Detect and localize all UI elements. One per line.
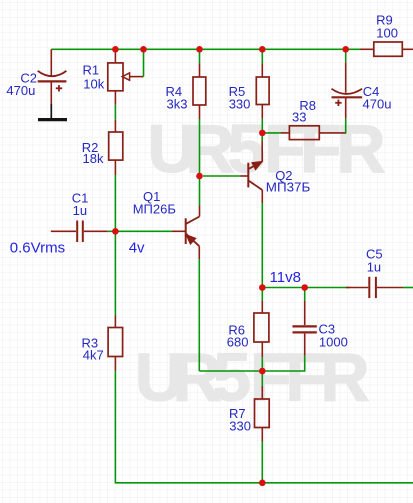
svg-text:3k3: 3k3 (167, 97, 188, 112)
capacitor C4 (332, 62, 363, 118)
wire R3 to bottom rail (115, 371, 413, 483)
label Q2 МП37Б (266, 168, 311, 195)
wire R7 to bottom rail (261, 441, 263, 482)
svg-text:1u: 1u (73, 203, 87, 218)
wire node to R6 (261, 288, 263, 302)
label R9 100 (376, 13, 398, 41)
node R6 R7 mid (259, 368, 266, 375)
wire R1 to R2 (114, 105, 116, 120)
resistor R4 (193, 63, 206, 119)
capacitor C1 (51, 221, 108, 243)
label R4 3k3 (166, 84, 188, 111)
wire node to C3 (304, 288, 306, 302)
resistor R2 (109, 120, 123, 175)
svg-text:1000: 1000 (319, 335, 348, 350)
svg-text:4v: 4v (129, 239, 145, 256)
node rail R5 (259, 46, 266, 53)
svg-text:11v8: 11v8 (270, 269, 301, 286)
R1 wiper arrow (122, 73, 143, 80)
node rail C4 (342, 46, 349, 53)
resistor R3 (108, 316, 123, 371)
label C3 1000 (319, 322, 348, 350)
transistor Q2 (241, 141, 263, 203)
wire rail to R5 (261, 49, 263, 63)
wire node to R8 (262, 132, 281, 134)
wire Q2 emitter to node (261, 130, 263, 141)
wire Q2 collector down (261, 203, 263, 288)
resistor R5 (256, 63, 269, 118)
svg-text:330: 330 (229, 418, 251, 433)
watermark row 2 (135, 339, 370, 415)
potentiometer R1 (108, 49, 123, 104)
svg-text:5: 5 (213, 339, 251, 415)
svg-text:33: 33 (292, 109, 306, 124)
wire R2 to input node (114, 175, 116, 316)
resistor R7 (255, 386, 270, 442)
label R2 18k (82, 140, 104, 166)
wire R5 to node (261, 119, 263, 130)
wire mid node to R7 (261, 371, 263, 386)
label C1 1u (72, 190, 89, 218)
node C3 top (301, 284, 308, 291)
wire Q1 collector to node (199, 176, 201, 206)
label R8 33 (292, 98, 316, 124)
label R6 680 (227, 322, 249, 349)
wire R6 to mid node (261, 357, 263, 371)
resistor R6 (254, 301, 269, 357)
svg-text:680: 680 (227, 335, 249, 350)
node rail wiper (140, 46, 147, 53)
svg-text:10k: 10k (83, 76, 104, 91)
wire R4 to Q2 base node (199, 119, 201, 176)
svg-text:470u: 470u (6, 83, 35, 98)
wire node to Q1 base (117, 230, 172, 232)
label C2 470u (6, 70, 37, 98)
label R1 10k (83, 63, 105, 92)
wire C5 to edge (403, 287, 413, 289)
node R4 Q2 base (196, 173, 203, 180)
wire node to Q2 base (203, 175, 241, 177)
capacitor C2 (38, 49, 67, 104)
label Q1 МП26Б (133, 189, 176, 216)
svg-text:330: 330 (229, 96, 251, 111)
svg-text:18k: 18k (83, 151, 104, 166)
wire rail to C4 (345, 49, 347, 62)
resistor R9 (360, 42, 413, 56)
wire C1 to node (108, 230, 113, 232)
ground (38, 104, 67, 120)
transistor Q1 (172, 206, 200, 260)
label C5 1u (366, 246, 383, 274)
node C1 input (112, 228, 119, 235)
svg-text:4k7: 4k7 (83, 348, 104, 363)
wire R8 corner up to C4 (345, 119, 347, 134)
wire Q1 emitter down (198, 259, 200, 371)
node rail R4 (196, 46, 203, 53)
label C4 470u (363, 84, 392, 111)
wire output node rail (262, 287, 350, 289)
svg-text:470u: 470u (363, 96, 392, 111)
label R7 330 (229, 406, 251, 433)
wire C3 to mid rail (262, 356, 304, 371)
watermark row 1 (148, 111, 386, 187)
label R3 4k7 (82, 336, 104, 363)
wire Q1 emitter rail to mid node (199, 370, 262, 372)
node output 11v8 (259, 284, 266, 291)
svg-text:МП37Б: МП37Б (266, 180, 311, 195)
capacitor C3 (293, 301, 317, 356)
node R5 R8 Q2e (259, 130, 266, 137)
label R5 330 (229, 84, 251, 111)
wire R1 wiper to rail (143, 49, 145, 76)
wire rail to R4 (199, 49, 201, 63)
svg-text:МП26Б: МП26Б (133, 202, 176, 217)
svg-text:100: 100 (376, 25, 398, 40)
svg-text:R: R (337, 111, 386, 187)
node rail R1 (112, 46, 119, 53)
wire top rail (51, 48, 360, 50)
resistor R8 (281, 126, 346, 140)
svg-text:1u: 1u (367, 259, 381, 274)
capacitor C5 (346, 277, 403, 298)
svg-text:0.6Vrms: 0.6Vrms (10, 239, 65, 256)
node R7 bottom rail (259, 480, 266, 487)
svg-text:R: R (321, 339, 370, 415)
